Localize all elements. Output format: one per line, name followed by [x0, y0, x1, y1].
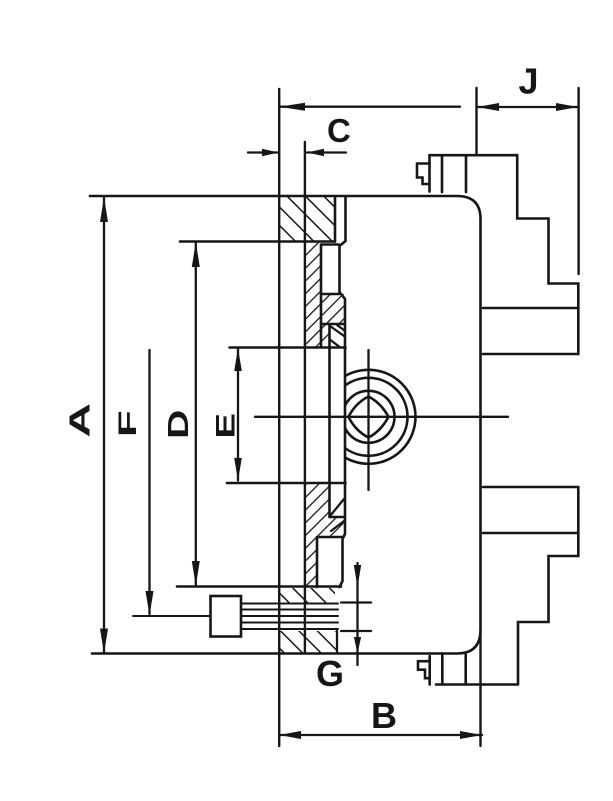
pinion vertical centerline — [367, 350, 369, 490]
dimension line D — [195, 243, 197, 586]
top jaw verticals on body — [442, 155, 466, 192]
arrow D top — [192, 242, 200, 267]
backplate flange top hatched block — [279, 197, 335, 242]
arrow A bottom — [100, 629, 108, 654]
arrow E top — [234, 348, 242, 371]
top jaw tab top edge — [430, 154, 518, 157]
pinion square socket — [349, 397, 389, 438]
bottom jaw tab left edge — [428, 656, 431, 685]
arrow F bottom — [146, 591, 154, 616]
svg-text:F: F — [114, 410, 142, 437]
pinion circles — [322, 370, 416, 464]
bottom bolt hole outline — [317, 537, 342, 587]
arrow J left — [477, 103, 499, 111]
backplate band below top hole hatched — [305, 294, 345, 324]
top bolt hole outline — [321, 245, 339, 348]
arrow C left — [262, 149, 279, 156]
bolt head — [211, 596, 242, 637]
J right extension line — [577, 88, 579, 274]
bolt shank thread lines — [241, 604, 338, 630]
dimension line C right tail — [307, 151, 346, 153]
J left extension line — [475, 88, 477, 155]
chuck body outline — [90, 196, 481, 654]
svg-text:C: C — [327, 112, 351, 149]
bolt centerline — [133, 615, 211, 617]
extension line x279 — [278, 89, 280, 746]
arrow A top — [100, 197, 108, 222]
backplate band above bore hatched — [305, 324, 330, 347]
body rear face — [340, 197, 346, 587]
bore bottom line — [227, 482, 346, 485]
dimension line F — [148, 350, 150, 614]
arrow C right — [307, 149, 324, 156]
recess bottom line — [177, 585, 341, 588]
B right extension line — [479, 631, 481, 746]
bottom jaw verticals on body — [442, 654, 465, 685]
arrow G bottom — [354, 637, 361, 654]
top jaw guide band lines — [483, 308, 578, 354]
backplate mid band upper hatched — [305, 242, 321, 295]
svg-text:A: A — [64, 403, 96, 438]
svg-text:E: E — [211, 413, 241, 439]
bottom jaw bottom edge — [436, 683, 518, 686]
arrow B left — [279, 731, 301, 739]
G tick marks — [341, 603, 371, 632]
bottom jaw guide band lines — [483, 487, 578, 533]
bottom jaw notch — [418, 661, 430, 678]
arrow J right — [556, 103, 578, 111]
dimension line C left tail — [248, 151, 279, 153]
arrow G top — [354, 565, 361, 587]
top jaw tab left edge — [428, 155, 431, 191]
svg-text:D: D — [163, 410, 195, 439]
band right of box bottom hatched — [330, 517, 345, 537]
dimension line top (body depth) — [279, 106, 460, 108]
svg-text:B: B — [371, 695, 397, 736]
bolt flange right edge — [336, 631, 338, 652]
bore inner vertical x329 — [328, 324, 331, 517]
bottom jaw step profile — [518, 487, 578, 684]
backplate band below bore hatched — [305, 483, 330, 537]
backplate bottom flange hatched band 1 — [280, 588, 335, 603]
dimension line B — [279, 734, 482, 736]
dimension line G — [356, 563, 358, 665]
arrow B right — [460, 731, 482, 739]
dimension line E — [237, 349, 239, 481]
body rear lip box top — [321, 323, 345, 326]
dimension line J — [477, 106, 579, 108]
svg-text:J: J — [519, 61, 539, 102]
arrow E bottom — [234, 458, 242, 481]
top jaw notch — [417, 164, 430, 185]
extension line x305 — [304, 142, 306, 653]
bore top line — [230, 346, 346, 349]
recess top line — [180, 240, 335, 243]
body rear lip diagonals bottom — [330, 499, 344, 531]
arrow top dim left — [279, 103, 305, 111]
svg-text:G: G — [316, 653, 344, 694]
backplate bottom flange hatched band 2 — [280, 631, 337, 653]
backplate flange top outline — [334, 197, 337, 242]
main centerline — [255, 416, 508, 418]
backplate band bottom narrow hatched — [305, 537, 317, 587]
top jaw step profile — [517, 155, 578, 354]
arrow D bottom — [192, 561, 200, 586]
dimension line A — [103, 197, 105, 653]
body rear lip box bottom — [330, 516, 345, 519]
body rear lip diagonals top — [330, 325, 345, 347]
